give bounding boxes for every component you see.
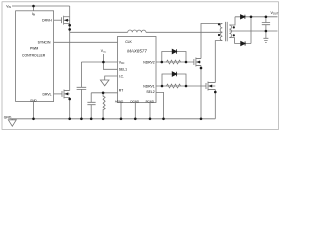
junction RT resistor	[102, 92, 105, 95]
resistor R1 at RT	[103, 93, 105, 119]
arrow Q4	[209, 85, 213, 88]
transistor Q2 low-side	[62, 89, 70, 98]
junction bus c2	[90, 118, 93, 121]
junction switch node	[68, 28, 71, 31]
wire top rectifier	[235, 16, 278, 18]
transistor Q4	[206, 82, 215, 91]
svg-text:PWM: PWM	[30, 47, 38, 51]
svg-text:IIN: IIN	[32, 12, 36, 17]
power flag VCC stub	[102, 54, 104, 62]
arrow Q3	[196, 61, 200, 64]
capacitor C2 at RT	[87, 93, 95, 119]
transistor Q3	[194, 58, 201, 67]
pwm controller U1 box	[16, 11, 54, 102]
svg-text:VOUT: VOUT	[270, 11, 278, 16]
wire Q3 drain riser to primary top	[201, 24, 222, 59]
svg-text:PGND: PGND	[146, 99, 154, 103]
arrow Q1	[64, 19, 68, 22]
junction bus pgnd	[149, 118, 152, 121]
inductor L1	[128, 30, 146, 32]
junction Q1 source	[68, 24, 71, 27]
junction bus q2	[68, 118, 71, 121]
diode D1	[172, 49, 176, 53]
IC U2 box	[118, 37, 157, 103]
svg-text:MAX8577: MAX8577	[127, 49, 147, 54]
phase dot primary top	[218, 23, 220, 25]
capacitor C3 output	[262, 17, 270, 31]
svg-text:DGND: DGND	[131, 99, 140, 103]
junction NDRV1 left	[161, 85, 164, 88]
wire DRVH to Q1 gate	[54, 19, 62, 21]
wire DGND drop	[134, 103, 136, 119]
resistor R3	[167, 84, 181, 88]
ground symbol arrow	[8, 119, 16, 126]
wire IC pin to ground	[105, 76, 118, 80]
svg-text:DRVL: DRVL	[43, 92, 52, 96]
diode D3	[241, 15, 245, 19]
diode D2 bypass loop wire	[162, 74, 186, 86]
wire Q1 source to switch node	[69, 17, 71, 33]
border frame	[2, 2, 279, 130]
wire Q1 drain	[69, 6, 71, 17]
wire bottom rectifier	[235, 43, 252, 45]
svg-text:GND: GND	[4, 115, 12, 119]
svg-text:RT: RT	[119, 89, 123, 93]
junction NDRV2 right	[185, 61, 188, 64]
svg-text:I.C.: I.C.	[119, 74, 124, 78]
junction bus c1	[80, 118, 83, 121]
transistor Q1	[62, 16, 70, 25]
svg-text:CONTROLLER: CONTROLLER	[22, 53, 46, 57]
transformer core	[226, 22, 228, 41]
wire IN stub	[33, 6, 35, 11]
wire VCC rail	[81, 61, 117, 63]
wire Q4 source drop and bus end	[214, 89, 216, 118]
wire AGND drop	[120, 103, 122, 119]
junction bus q3	[200, 118, 203, 121]
wire DRVL to Q2 gate	[54, 93, 62, 95]
wire RT	[91, 92, 117, 94]
wire PGND drop	[149, 103, 151, 119]
ground bus wire	[11, 118, 216, 120]
junction bus agnd	[120, 118, 123, 121]
wire NDRV1	[156, 85, 206, 87]
svg-text:DRVH: DRVH	[42, 19, 52, 23]
phase dot secondary bottom	[233, 34, 235, 36]
phase dot secondary top	[233, 26, 235, 28]
wire SEL1 tie to VCC	[103, 62, 117, 69]
junction VCC	[102, 61, 105, 64]
wire secondary top lead riser	[229, 17, 235, 25]
ground open triangle at I.C.	[100, 80, 109, 86]
svg-text:NDRV2: NDRV2	[143, 60, 155, 64]
junction bus r1	[102, 118, 105, 121]
svg-text:CLK: CLK	[125, 40, 132, 44]
transformer T1 secondary winding	[229, 25, 231, 38]
resistor R2	[167, 60, 181, 64]
junction bus sel2	[162, 118, 165, 121]
node VIN wire	[12, 5, 70, 7]
junction Q4 source	[214, 91, 217, 94]
wire secondary bottom lead drop	[229, 38, 234, 44]
junction bus pwm gnd	[32, 118, 35, 121]
wire rectifier riser	[250, 17, 252, 44]
arrow Q2	[65, 92, 69, 95]
wire GND pin of PWM	[33, 102, 35, 119]
svg-text:GND: GND	[30, 98, 36, 102]
wire NDRV2	[156, 61, 194, 63]
junction vout riser	[250, 15, 253, 18]
svg-text:NDRV1: NDRV1	[143, 84, 155, 88]
diode D4	[241, 41, 245, 45]
junction NDRV1 right	[185, 85, 188, 88]
junction bus dgnd	[134, 118, 137, 121]
diode D1 bypass loop wire	[162, 52, 186, 63]
junction return cap	[265, 30, 268, 33]
junction Q2 source	[68, 98, 71, 101]
junction Q3 source	[200, 67, 203, 70]
wire inductor to transformer center tap	[146, 31, 222, 33]
wire SYNCIN to CLK	[54, 41, 118, 43]
wire secondary center tap return rail	[229, 30, 277, 32]
phase dot primary bottom	[218, 34, 220, 36]
capacitor C1 vcc bypass	[77, 62, 87, 119]
junction vout cap	[265, 15, 268, 18]
junction VIN/IN	[32, 5, 35, 8]
svg-text:SEL2: SEL2	[146, 90, 154, 94]
wire Q2 source to ground bus	[69, 97, 71, 118]
wire switch node to Q2 drain	[69, 32, 71, 90]
svg-text:SYNCIN: SYNCIN	[38, 41, 51, 45]
diode D2	[172, 72, 176, 76]
wire SEL2 drop	[156, 92, 164, 118]
transformer T1 primary winding	[220, 24, 222, 41]
svg-text:VIN: VIN	[6, 5, 11, 10]
svg-text:AGND: AGND	[115, 99, 123, 103]
svg-text:SEL1: SEL1	[119, 68, 127, 72]
wire switch node to inductor	[70, 31, 128, 33]
junction NDRV2 left	[161, 61, 164, 64]
wire Q4 drain riser to primary bottom	[215, 41, 222, 83]
svg-text:VCC: VCC	[119, 60, 125, 65]
earth ground symbol	[263, 31, 268, 43]
wire Q3 source drop	[200, 65, 202, 118]
